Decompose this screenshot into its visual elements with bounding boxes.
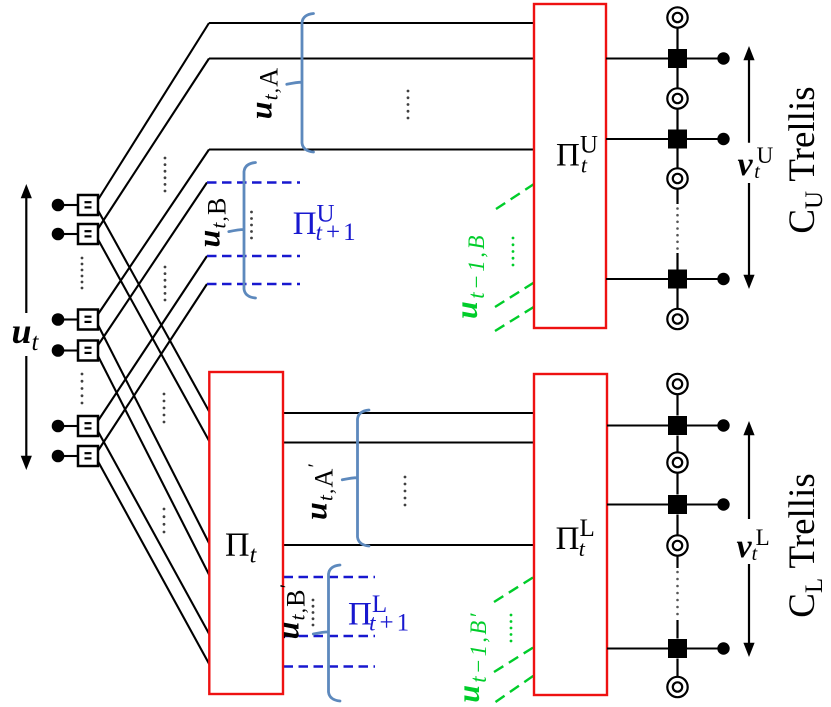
dots u_t,A' lines xyxy=(404,476,407,507)
u_t,B' dashed blue lines (inputs of Pi_(t+1)^L) xyxy=(284,577,376,667)
node input 1 xyxy=(52,195,98,215)
svg-text:CL Trellis: CL Trellis xyxy=(782,473,828,618)
brace u_t,B xyxy=(229,163,256,299)
wire: input 6 up-diagonal xyxy=(98,284,208,452)
dots input column lower xyxy=(81,373,84,405)
brace u_t,B' xyxy=(313,565,340,701)
wire: input 4 down-diagonal into Pi_t xyxy=(98,355,211,577)
node input 6 xyxy=(52,446,98,466)
wire: input 3 down-diagonal into Pi_t xyxy=(98,324,211,545)
dots wire field 2 xyxy=(164,266,167,302)
node input 4 xyxy=(52,341,98,361)
dots green lower xyxy=(510,614,513,643)
u_t,B dashed blue lines (inputs of Pi_(t+1)^U) xyxy=(207,183,300,285)
output arrow v_t^U xyxy=(743,46,754,289)
dots upper trellis chain xyxy=(676,207,679,250)
u_(t-1),B green dashed wires into Pi_t^U xyxy=(495,184,535,331)
wire: u_t,A line 1 horizontal xyxy=(209,22,534,24)
permutation box Pi_t xyxy=(209,372,283,694)
wire: input 2 up-diagonal xyxy=(98,59,210,230)
brace u_t,A xyxy=(287,14,314,153)
output arrow v_t^L xyxy=(743,421,754,657)
dots green upper xyxy=(512,237,515,267)
wire: u_t,A line 3 horizontal xyxy=(209,148,534,150)
u_(t-1),B' green dashed wires into Pi_t^L xyxy=(494,577,535,703)
wire: input 1 up-diagonal xyxy=(98,23,210,201)
permutation box Pi_t^L xyxy=(534,374,607,695)
dots u_t,B lines xyxy=(250,211,253,240)
dots lower trellis chain xyxy=(676,571,679,616)
wire: input 5 up-diagonal xyxy=(98,256,208,422)
dots u_t,B' lines xyxy=(312,599,315,627)
dots wire field 3 xyxy=(163,393,166,424)
wire: input 3 up-diagonal xyxy=(98,150,210,316)
brace u_t,A' xyxy=(342,410,369,546)
C_U trellis chain xyxy=(606,7,730,329)
node input 3 xyxy=(52,310,98,330)
wire: input 5 down-diagonal into Pi_t xyxy=(98,431,211,636)
svg-text:CU Trellis: CU Trellis xyxy=(782,86,828,233)
wire: input 6 down-diagonal into Pi_t xyxy=(98,461,211,666)
wires: u_t,A' solid lines from Pi_t to Pi_t^L xyxy=(283,412,534,414)
input vector arrow u_t xyxy=(21,184,32,470)
wire: input 2 down-diagonal into Pi_t xyxy=(98,239,211,443)
permutation box Pi_t^U xyxy=(534,4,606,328)
wire: input 1 down-diagonal into Pi_t xyxy=(98,210,211,414)
wire: u_t,A line 2 horizontal xyxy=(209,57,534,59)
dots wire field 4 xyxy=(163,508,166,534)
dots u_t,A lines xyxy=(407,90,410,120)
wire: input 4 up-diagonal xyxy=(98,183,208,347)
node input 5 xyxy=(52,416,98,436)
node input 2 xyxy=(52,224,98,244)
dots input column upper xyxy=(81,257,84,290)
C_L trellis chain xyxy=(607,374,730,697)
dots wire field 1 xyxy=(164,157,167,193)
